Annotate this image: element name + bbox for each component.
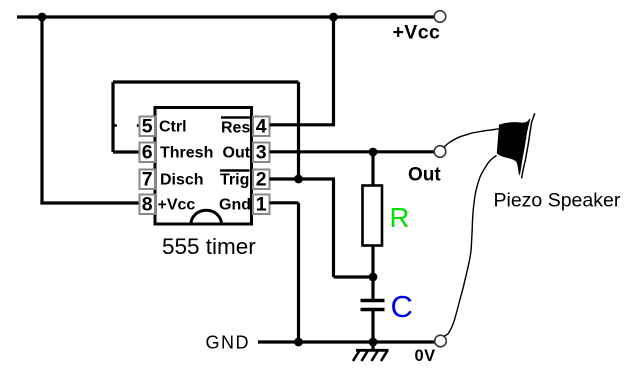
resistor R xyxy=(363,186,383,246)
wire R top xyxy=(371,152,374,186)
wire thresh loop top xyxy=(113,80,299,83)
svg-text:Trig: Trig xyxy=(220,172,249,189)
overline Trig xyxy=(220,169,250,171)
svg-text:555 timer: 555 timer xyxy=(162,234,256,259)
svg-text:C: C xyxy=(391,289,413,324)
svg-text:5: 5 xyxy=(142,116,153,138)
node junction out/R xyxy=(369,148,378,157)
node junction trig/thresh xyxy=(294,175,303,184)
wire top +Vcc rail xyxy=(17,15,435,18)
pin 8 box xyxy=(140,195,156,215)
terminal 0V xyxy=(435,335,447,347)
svg-text:+Vcc: +Vcc xyxy=(393,22,441,44)
wire speaker lead from Out xyxy=(444,129,500,148)
wire thresh loop vertical left xyxy=(111,82,114,152)
svg-text:2: 2 xyxy=(256,169,267,191)
wire pin2 trig xyxy=(270,177,336,180)
wire pin3 out to terminal xyxy=(270,150,435,153)
pin 5 box xyxy=(140,117,156,137)
wire trig drop xyxy=(332,179,335,277)
node junction top-left xyxy=(38,13,47,22)
node junction gnd/C xyxy=(369,338,378,347)
wire gnd drop xyxy=(297,203,300,342)
node junction gnd/pin1 xyxy=(294,338,303,347)
wire pin8 +Vcc stub xyxy=(40,201,139,204)
speaker cone front line xyxy=(522,113,535,178)
overline Res xyxy=(221,116,251,118)
capacitor C top plate xyxy=(361,299,385,302)
svg-text:0V: 0V xyxy=(415,347,436,365)
ground symbol stem xyxy=(371,342,374,350)
svg-text:6: 6 xyxy=(142,142,153,164)
ground symbol bar xyxy=(356,349,389,352)
capacitor C bottom plate xyxy=(361,308,385,311)
ground symbol hatch 4 xyxy=(381,351,388,362)
wire pin6 thresh stub xyxy=(113,150,140,153)
ground symbol hatch 2 xyxy=(362,351,369,362)
svg-text:Piezo Speaker: Piezo Speaker xyxy=(494,190,621,212)
svg-text:4: 4 xyxy=(256,116,267,138)
wire pin5 ctrl nub on rail xyxy=(113,124,117,127)
node junction top at reset drop xyxy=(329,13,338,22)
wire pin5 ctrl nub at box xyxy=(137,124,140,127)
svg-text:+Vcc: +Vcc xyxy=(158,197,196,214)
wire C top xyxy=(371,277,374,300)
ground symbol hatch 1 xyxy=(353,351,360,362)
wire left vertical rail xyxy=(40,17,43,203)
wire speaker lead to 0V xyxy=(445,156,497,337)
chip notch semicircle xyxy=(191,210,222,224)
wire C bottom xyxy=(371,311,374,342)
svg-text:Gnd: Gnd xyxy=(219,197,251,214)
svg-text:Out: Out xyxy=(408,165,441,186)
wire trig to RC node xyxy=(334,275,374,278)
pin 3 box xyxy=(253,143,270,163)
pin 2 box xyxy=(253,170,270,190)
svg-text:Ctrl: Ctrl xyxy=(159,119,187,136)
wire pin1 gnd xyxy=(270,201,299,204)
svg-text:Disch: Disch xyxy=(160,172,204,189)
wire gnd rail xyxy=(258,340,435,343)
svg-text:3: 3 xyxy=(256,142,267,164)
terminal Out xyxy=(434,146,446,158)
svg-text:Thresh: Thresh xyxy=(160,145,213,162)
pin 1 box xyxy=(253,195,270,215)
svg-text:7: 7 xyxy=(142,169,153,191)
svg-text:R: R xyxy=(390,202,410,233)
svg-text:1: 1 xyxy=(256,194,267,216)
pin 4 box xyxy=(253,117,270,137)
speaker piezo body xyxy=(497,119,530,174)
wire reset drop from +Vcc rail xyxy=(332,17,335,125)
svg-text:Res: Res xyxy=(221,120,250,137)
op-amp U1 555 chip body xyxy=(155,108,252,225)
wire R bottom xyxy=(371,246,374,278)
svg-text:Out: Out xyxy=(223,145,251,162)
terminal +Vcc xyxy=(434,11,446,23)
ground symbol hatch 3 xyxy=(372,351,379,362)
svg-text:GND: GND xyxy=(206,332,251,352)
pin 6 box xyxy=(140,143,156,163)
wire pin4 reset xyxy=(270,123,336,126)
pin 7 box xyxy=(140,170,156,190)
node junction R/C xyxy=(369,273,378,282)
svg-text:8: 8 xyxy=(142,194,153,216)
wire thresh loop vertical right to trig xyxy=(297,82,300,179)
